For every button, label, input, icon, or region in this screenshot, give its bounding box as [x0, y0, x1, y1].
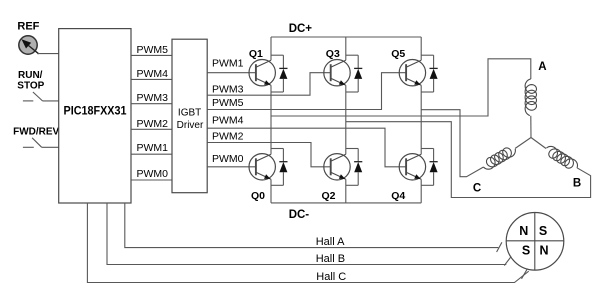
wire phase B leg2 to coil B [346, 122, 591, 198]
wire phase A leg1 to coil A [271, 59, 531, 116]
hall sensor rotor circle [506, 213, 564, 271]
label PWM2 right [212, 130, 244, 142]
svg-text:Q5: Q5 [391, 48, 405, 60]
sensor tick Hall B [504, 256, 511, 265]
diode D4 [421, 149, 438, 186]
transistor Q5 [391, 48, 425, 86]
switch FWD/REV [23, 138, 42, 148]
wire PWM4 U1 to driver [131, 78, 172, 80]
svg-text:PWM1: PWM1 [212, 58, 244, 70]
svg-text:PWM3: PWM3 [137, 92, 169, 104]
switch RUN/STOP [23, 92, 43, 101]
wire leg1 midpoint [270, 85, 272, 154]
coil C [484, 148, 516, 169]
label PWM0 right [212, 153, 244, 165]
wire RUN/STOP to U1 [43, 100, 59, 102]
label PWM3 left [137, 92, 169, 104]
label Hall B [316, 253, 345, 265]
wire PWM3 U1 to driver [131, 103, 172, 105]
wire PWM2 driver to Q2 base [207, 143, 331, 167]
svg-text:PWM5: PWM5 [212, 97, 244, 109]
label Hall C [316, 271, 346, 283]
svg-text:DC-: DC- [289, 209, 310, 221]
label PWM5 left [137, 44, 169, 56]
svg-text:Q3: Q3 [326, 48, 340, 60]
svg-text:PWM3: PWM3 [212, 84, 244, 96]
label C [473, 183, 481, 195]
label REF [17, 20, 39, 32]
rail DC+ [271, 36, 421, 38]
label PWM4 right [212, 114, 244, 126]
svg-text:N: N [539, 244, 548, 258]
svg-text:PWM5: PWM5 [137, 44, 169, 56]
transistor Q2 [321, 154, 350, 202]
label S pole bottom [522, 244, 530, 258]
svg-text:DC+: DC+ [289, 23, 313, 35]
wire leg3 emitter to DC- [420, 179, 422, 203]
svg-text:S: S [522, 244, 530, 258]
rail DC- [271, 202, 421, 204]
svg-text:Hall C: Hall C [316, 271, 346, 283]
wire PWM0 driver to Q0 base [207, 166, 256, 168]
wire FWD/REV to U1 [42, 146, 59, 148]
svg-text:PWM4: PWM4 [137, 68, 169, 80]
svg-text:Q1: Q1 [249, 48, 263, 60]
coil A [525, 79, 536, 116]
label PWM4 left [137, 68, 169, 80]
label A [538, 61, 546, 73]
svg-text:PWM2: PWM2 [137, 118, 169, 130]
svg-text:B: B [573, 178, 581, 190]
wire leg2 midpoint [345, 85, 347, 154]
svg-text:PWM2: PWM2 [212, 130, 244, 142]
label PWM5 right [212, 97, 244, 109]
wire PWM5 U1 to driver [131, 54, 172, 56]
label PWM1 left [137, 142, 169, 154]
wire leg2 emitter to DC- [345, 179, 347, 203]
label PWM2 left [137, 118, 169, 130]
label S pole top [539, 224, 547, 238]
label N pole bottom [539, 244, 548, 258]
svg-text:STOP: STOP [17, 80, 44, 91]
wire coil B to star node [531, 138, 546, 149]
svg-text:PWM0: PWM0 [212, 153, 244, 165]
svg-text:N: N [519, 224, 528, 238]
wire leg1 emitter to DC- [270, 179, 272, 203]
wire leg1 collector to DC+ [270, 37, 272, 60]
wire PWM3 driver to Q3 base [207, 73, 331, 96]
transistor Q4 [391, 154, 425, 202]
transistor Q1 [249, 48, 276, 86]
wire Hall A [125, 203, 499, 248]
wire PWM0 U1 to driver [131, 179, 172, 181]
transistor Q0 [249, 154, 275, 202]
diode D1 [271, 55, 288, 92]
svg-text:REF: REF [17, 20, 39, 32]
transistor Q3 [324, 48, 350, 86]
svg-text:Hall B: Hall B [316, 253, 345, 265]
svg-text:PIC18FXX31: PIC18FXX31 [64, 103, 127, 117]
diode D3 [346, 55, 363, 92]
wire phase C leg3 to coil C [421, 110, 483, 177]
svg-text:PWM4: PWM4 [212, 114, 244, 126]
diode D5 [421, 55, 438, 92]
wire coil A to star node [530, 116, 532, 138]
wire Hall C [87, 203, 528, 283]
svg-text:Q2: Q2 [321, 190, 335, 202]
wire leg3 collector to DC+ [420, 37, 422, 60]
svg-text:FWD/REV: FWD/REV [13, 127, 59, 138]
wire REF to U1 [37, 53, 59, 55]
wire Hall B [107, 203, 506, 265]
label PWM1 right [212, 58, 244, 70]
label N pole top [519, 224, 528, 238]
label DC+ [289, 23, 313, 35]
svg-text:S: S [539, 224, 547, 238]
coil B [546, 146, 577, 168]
wire PWM4 driver to Q4 base [207, 128, 406, 167]
sensor tick Hall C [522, 269, 528, 279]
label FWD/REV [13, 127, 59, 138]
diode D2 [346, 149, 363, 186]
wire leg3 midpoint [420, 85, 422, 154]
wire PWM1 U1 to driver [131, 153, 172, 155]
svg-text:PWM1: PWM1 [137, 142, 169, 154]
diode D0 [271, 149, 288, 186]
label B [573, 178, 581, 190]
svg-text:C: C [473, 183, 481, 195]
sensor tick Hall A [497, 242, 502, 252]
label Hall A [316, 236, 345, 248]
svg-text:Driver: Driver [177, 120, 204, 131]
microcontroller U1 PIC18FXX31 [59, 29, 131, 203]
label DC- [289, 209, 310, 221]
svg-text:Q4: Q4 [391, 190, 405, 202]
wire coil C to star node [515, 138, 531, 149]
wire PWM1 driver to Q1 base [207, 72, 256, 74]
svg-text:Q0: Q0 [251, 190, 265, 202]
label RUN/STOP [17, 70, 44, 91]
svg-text:Hall A: Hall A [316, 236, 345, 248]
wire PWM5 driver to Q5 base [207, 73, 406, 110]
svg-text:A: A [538, 61, 546, 73]
svg-text:PWM0: PWM0 [137, 168, 169, 180]
gate driver U2 IGBT Driver [172, 39, 207, 193]
svg-text:IGBT: IGBT [178, 108, 201, 119]
label PWM0 left [137, 168, 169, 180]
wire leg2 collector to DC+ [345, 37, 347, 60]
wire PWM2 U1 to driver [131, 128, 172, 130]
potentiometer REF [19, 36, 39, 54]
label PWM3 right [212, 84, 244, 96]
